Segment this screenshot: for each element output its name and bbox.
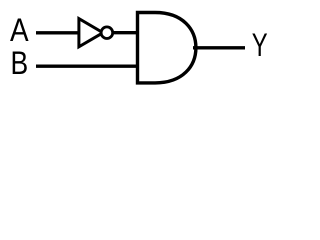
svg-text:A: A <box>10 12 29 48</box>
AND gate <box>138 13 196 83</box>
wire B to AND gate <box>36 65 138 68</box>
svg-text:B: B <box>11 45 29 81</box>
wire inverter to AND gate <box>114 31 138 34</box>
svg-text:Y: Y <box>252 27 268 63</box>
wire AND gate output to Y <box>193 46 245 49</box>
inverter (NOT gate) triangle <box>79 19 103 47</box>
wire A to inverter <box>36 31 79 34</box>
inverter bubble <box>101 27 113 39</box>
